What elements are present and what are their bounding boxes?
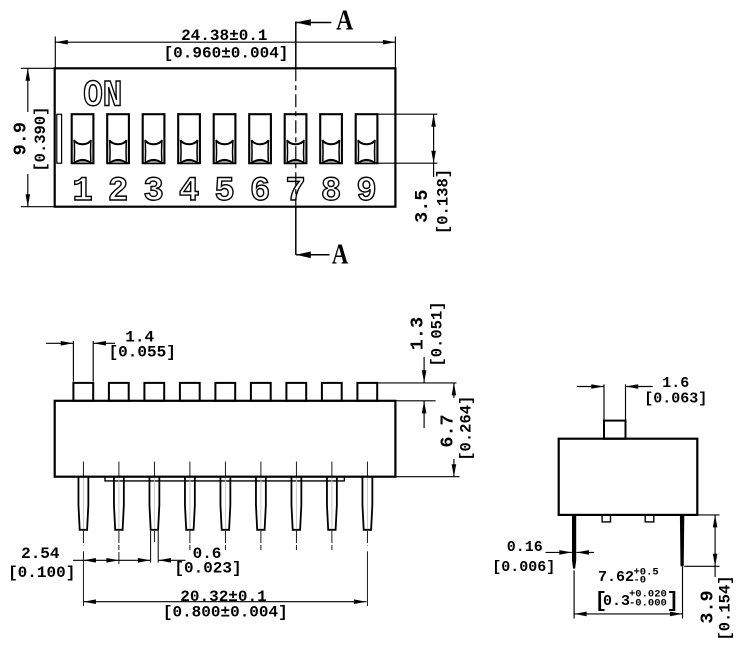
section line A-A: [295, 22, 297, 255]
front pin 2: [114, 462, 124, 566]
front actuator 9: [357, 383, 377, 401]
dim 1.6 arrows: [577, 384, 653, 389]
switch 1: [72, 114, 94, 163]
front actuator 2: [109, 383, 129, 401]
top view body: [55, 68, 396, 206]
section arrow top: [296, 19, 332, 26]
front actuator 8: [322, 383, 342, 401]
dim 7.62 extension lines: [574, 566, 682, 618]
side actuator: [604, 421, 626, 439]
side foot left: [602, 515, 610, 522]
front pin 9: [362, 462, 372, 606]
front standoff: [105, 477, 344, 481]
dim 1.3 arrows: [422, 357, 427, 428]
dim 0.16 arrows: [546, 550, 595, 555]
svg-text:-0: -0: [634, 575, 647, 587]
svg-text:[0.055]: [0.055]: [109, 344, 176, 362]
svg-text:8: 8: [321, 173, 341, 211]
dim 3.5 extension top: [378, 113, 438, 115]
front actuator 1: [73, 383, 93, 401]
switch 6: [249, 114, 271, 163]
front actuator 6: [251, 383, 271, 401]
switch 2: [107, 114, 129, 163]
dim 3.9 line: [713, 515, 718, 577]
dim 2.54 and 0.6 lines: [73, 558, 186, 563]
front pin 7: [291, 462, 301, 550]
dim 3.9 extension top: [697, 514, 719, 516]
front pin 5: [220, 462, 230, 550]
dim 1.3 extension bottom: [395, 400, 435, 402]
svg-text:]: ]: [667, 591, 680, 614]
switch 5: [214, 114, 236, 163]
dim 9.9 line: [26, 68, 31, 206]
svg-text:[0.390]: [0.390]: [32, 107, 50, 172]
dim 3.5 line: [431, 114, 436, 177]
svg-text:[0.006]: [0.006]: [492, 559, 555, 576]
dim 24.38 extension right: [394, 37, 396, 69]
dim 3.9 extension bottom: [684, 565, 719, 567]
svg-text:A: A: [336, 3, 353, 36]
dim 6.7 line: [452, 383, 457, 477]
dim 20.32 line: [83, 599, 366, 604]
svg-text:[0.023]: [0.023]: [174, 560, 241, 578]
dim 9.9 extension bottom: [21, 206, 55, 208]
front pin 8: [327, 462, 337, 550]
svg-text:1.3: 1.3: [408, 317, 429, 350]
dim 1.4 arrows: [46, 341, 115, 346]
svg-text:2: 2: [108, 173, 128, 211]
front actuator 5: [215, 383, 235, 401]
svg-text:3: 3: [143, 173, 163, 211]
side foot right: [645, 515, 654, 522]
front pin 4: [185, 462, 195, 550]
front actuator 3: [144, 383, 164, 401]
side pin left: [572, 515, 576, 569]
dim 1.6 extension lines: [604, 384, 626, 420]
svg-text:6.7: 6.7: [438, 414, 459, 447]
front view body: [55, 401, 396, 477]
dim text 7.62 tol: [634, 567, 659, 587]
svg-text:6: 6: [250, 173, 270, 211]
svg-text:A: A: [332, 239, 349, 271]
svg-text:[0.100]: [0.100]: [8, 564, 75, 582]
svg-text:[0.960±0.004]: [0.960±0.004]: [164, 44, 289, 62]
side pin right: [680, 515, 684, 566]
switch 8: [320, 114, 342, 163]
side view body: [559, 439, 698, 515]
section arrow bottom: [296, 252, 330, 259]
svg-text:[0.138]: [0.138]: [435, 169, 453, 234]
svg-text:0.16: 0.16: [507, 539, 543, 556]
svg-text:[0.063]: [0.063]: [644, 391, 707, 408]
svg-text:5: 5: [214, 173, 234, 211]
front actuator 4: [180, 383, 200, 401]
dim 1.3 extension top: [378, 382, 457, 384]
dim 1.4 extension lines: [73, 341, 93, 382]
svg-text:4: 4: [179, 173, 199, 211]
svg-text:[0.154]: [0.154]: [716, 575, 734, 640]
svg-text:0.3: 0.3: [603, 593, 630, 610]
switch 4: [178, 114, 200, 163]
dim 24.38 line: [55, 40, 395, 45]
svg-text:1.6: 1.6: [662, 375, 689, 392]
dim 6.7 extension bottom: [395, 476, 459, 478]
front pin 1: [78, 462, 88, 606]
switch 7: [285, 114, 307, 163]
svg-text:[0.800±0.004]: [0.800±0.004]: [163, 604, 288, 622]
svg-text:24.38±0.1: 24.38±0.1: [181, 27, 267, 45]
svg-text:9: 9: [356, 173, 376, 211]
front actuator 7: [286, 383, 306, 401]
dim 24.38 extension left: [54, 37, 56, 69]
svg-text:[0.051]: [0.051]: [429, 301, 447, 366]
dim 7.62 line: [574, 612, 682, 617]
front pin 3: [149, 462, 159, 563]
dim 3.5 extension bottom: [378, 162, 438, 164]
svg-text:1: 1: [72, 173, 92, 211]
svg-text:2.54: 2.54: [21, 545, 60, 563]
top view left notch: [57, 114, 62, 163]
dim 9.9 extension top: [21, 67, 55, 69]
svg-text:ON: ON: [83, 76, 122, 117]
svg-text:-0.000: -0.000: [629, 597, 667, 609]
dim text 0.3: [595, 588, 680, 613]
switch 9: [356, 114, 378, 163]
svg-text:7.62: 7.62: [598, 569, 634, 586]
svg-text:3.5: 3.5: [412, 190, 433, 223]
svg-text:9.9: 9.9: [11, 122, 32, 155]
switch 3: [143, 114, 165, 163]
svg-text:[0.264]: [0.264]: [458, 396, 476, 461]
front pin 6: [256, 462, 266, 550]
